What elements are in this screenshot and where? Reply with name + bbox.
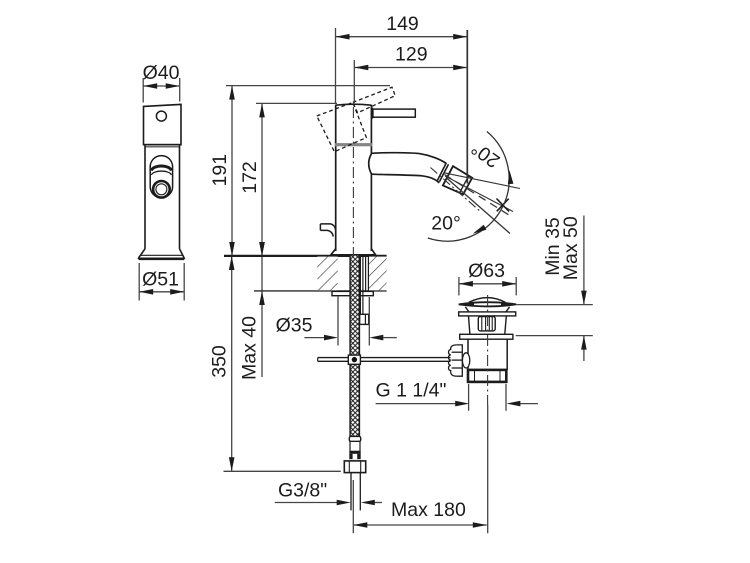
svg-text:Ø51: Ø51: [142, 269, 179, 291]
G3/8 pipe tails: [350, 473, 352, 511]
svg-text:149: 149: [386, 13, 419, 35]
dim Max 180: [353, 480, 487, 533]
svg-text:G 1 1/4": G 1 1/4": [376, 380, 447, 402]
svg-text:Max 50: Max 50: [560, 216, 582, 280]
main view: aerator body: [443, 166, 472, 194]
drain: tailpiece threaded: [468, 370, 506, 382]
drain: cap rim: [459, 302, 517, 306]
main view: spout: [369, 153, 447, 183]
drain: center line: [487, 295, 489, 405]
drain: knob disc: [462, 353, 469, 368]
dim 191: [226, 86, 390, 256]
G3/8 nut: [344, 461, 365, 473]
main view: center line: [352, 107, 354, 255]
dim Min 35 / Max 50: [516, 216, 593, 362]
counter hatch left: [317, 257, 337, 291]
dim 129: [354, 60, 467, 103]
svg-text:20°: 20°: [431, 213, 461, 235]
hose ferrule: [349, 436, 360, 441]
hose end block: [349, 453, 360, 459]
main view: spray direction line upper: [444, 173, 520, 189]
main view: 20 degree arc: [428, 132, 509, 242]
svg-text:Max 180: Max 180: [391, 499, 466, 521]
main view: dashed handle rotated position (box): [317, 102, 367, 151]
svg-text:350: 350: [209, 345, 231, 378]
rod clamp square: [348, 355, 360, 364]
drain: Ø63 dim: [459, 277, 516, 295]
drain: pop-up cap dome: [469, 298, 505, 303]
main view: spray edge line: [446, 178, 510, 234]
drain: neck: [465, 307, 469, 312]
main view: angle tick X: [497, 199, 510, 212]
svg-text:Max 40: Max 40: [239, 316, 261, 380]
main view: cartridge gray band: [335, 143, 372, 146]
main view: aerator joint lines: [437, 163, 453, 186]
front view: lever knob capsule: [150, 156, 172, 198]
main view: body: [331, 104, 376, 255]
dim Ø51: [139, 263, 184, 301]
front view: lever neck band: [151, 166, 171, 171]
svg-text:Ø63: Ø63: [468, 260, 505, 282]
dim Ø40: [143, 78, 180, 103]
hose dark collar: [349, 451, 360, 453]
svg-text:172: 172: [239, 161, 261, 194]
braided supply hose: [350, 256, 359, 437]
drain: mid body sides: [469, 316, 470, 334]
hose fitting block: [360, 314, 369, 324]
drain: upper flange: [459, 312, 516, 316]
dim 149: [336, 28, 468, 184]
drain: lower flange: [460, 334, 513, 339]
counter hatch right: [369, 257, 387, 291]
main view: spout axis dash-dot: [431, 168, 482, 213]
svg-text:Ø40: Ø40: [143, 62, 180, 84]
front view: handle screw circle: [156, 111, 166, 121]
svg-text:G3/8": G3/8": [278, 480, 327, 502]
hose end tube: [350, 441, 360, 451]
dim 350: [224, 256, 341, 471]
drain: lower body: [467, 339, 469, 370]
front view: knob end circle: [153, 181, 170, 198]
svg-text:129: 129: [395, 44, 428, 66]
main view: lever handle: [373, 109, 415, 117]
main view: dashed handle rotated position (lever): [353, 87, 395, 113]
main view: spray direction line middle dashed: [445, 175, 511, 217]
counter top line: [224, 255, 387, 257]
dim 172: [256, 103, 337, 256]
mounting washer under counter: [332, 291, 373, 295]
drain: ribbed drum: [478, 317, 495, 331]
dim Ø35: [304, 296, 396, 346]
pop-up rod hook at body: [320, 224, 335, 237]
pop-up transfer rod: [318, 357, 451, 359]
main view: spray direction line lower: [445, 176, 513, 212]
rod clamp screw dot: [352, 357, 357, 362]
svg-text:20°: 20°: [467, 137, 504, 172]
front view: faucet body outline: [139, 104, 185, 259]
shank lines: [360, 257, 368, 315]
drain: knurled knob: [449, 345, 463, 376]
svg-text:191: 191: [209, 154, 231, 187]
dim Max 40: [261, 256, 263, 377]
svg-text:Ø35: Ø35: [276, 315, 313, 337]
dim G 1 1/4: [376, 384, 538, 411]
counter bottom line: [254, 290, 387, 292]
dim G3/8: [275, 502, 382, 504]
